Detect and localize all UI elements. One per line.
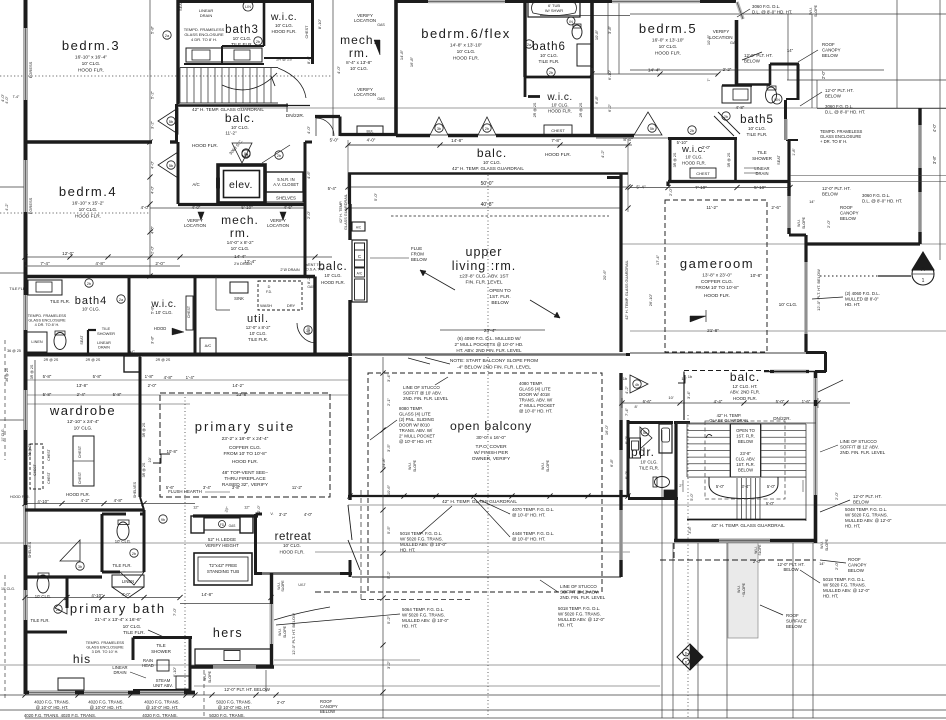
svg-text:5'-2": 5'-2" xyxy=(150,90,155,99)
svg-text:2'-0": 2'-0" xyxy=(148,383,157,388)
svg-text:HD. HT.: HD. HT. xyxy=(400,548,415,553)
svg-text:1'-8": 1'-8" xyxy=(792,148,796,156)
svg-text:+ DR. TO 8' H.: + DR. TO 8' H. xyxy=(820,139,847,144)
svg-text:4020 F.G. TRANS. 4020 F.G. TR: 4020 F.G. TRANS. 4020 F.G. TRANS. xyxy=(24,713,96,718)
svg-text:HOOD FLR.: HOOD FLR. xyxy=(321,280,345,285)
svg-text:8'-10": 8'-10" xyxy=(317,18,322,29)
svg-text:LINEN: LINEN xyxy=(122,579,134,584)
svg-text:SHOWER: SHOWER xyxy=(97,331,115,336)
svg-text:A/C: A/C xyxy=(357,272,363,276)
svg-text:HOOD FLR.: HOOD FLR. xyxy=(453,56,479,62)
svg-text:3'-4": 3'-4" xyxy=(386,373,391,382)
svg-text:4'-2": 4'-2" xyxy=(5,203,9,211)
svg-text:2R @ 2S: 2R @ 2S xyxy=(276,58,292,62)
svg-text:5'-4": 5'-4" xyxy=(636,185,646,190)
right outer wall upper xyxy=(806,108,920,244)
svg-text:THRU FIREPLACE: THRU FIREPLACE xyxy=(224,476,265,482)
svg-text:SOFFIT @ 12' ABV.: SOFFIT @ 12' ABV. xyxy=(560,590,599,595)
wall bath4 / wic4 xyxy=(128,276,131,354)
svg-text:CHEST: CHEST xyxy=(47,449,51,461)
svg-text:14'-2": 14'-2" xyxy=(232,383,244,388)
svg-text:2R @ 2S: 2R @ 2S xyxy=(533,102,537,117)
leader lines xyxy=(276,9,850,625)
bedrm.5 east wall xyxy=(737,2,744,86)
svg-text:MULLED ABV. @ 10'-0": MULLED ABV. @ 10'-0" xyxy=(400,542,447,547)
svg-text:A/C: A/C xyxy=(356,226,362,230)
svg-text:2R @ 2S: 2R @ 2S xyxy=(86,358,101,362)
svg-text:ROOF: ROOF xyxy=(848,557,861,562)
svg-text:12'-0" x 8'-2": 12'-0" x 8'-2" xyxy=(246,325,271,330)
bath3 vanity sinks xyxy=(186,48,262,62)
svg-text:11'-2": 11'-2" xyxy=(292,485,303,490)
svg-text:10'-6": 10'-6" xyxy=(386,484,391,495)
svg-text:10' CLG.: 10' CLG. xyxy=(231,246,250,252)
svg-text:bath6: bath6 xyxy=(532,41,566,53)
svg-text:NOTE: START BALCONY SLOPE FROM: NOTE: START BALCONY SLOPE FROM xyxy=(450,358,538,364)
svg-text:(6) 4090 F.G. D.L. MULLED W/: (6) 4090 F.G. D.L. MULLED W/ xyxy=(457,336,521,341)
svg-text:DOOR W/ 4018: DOOR W/ 4018 xyxy=(519,392,550,397)
svg-text:10' CLG.: 10' CLG. xyxy=(748,126,766,131)
svg-text:TILE FLR.: TILE FLR. xyxy=(30,618,49,623)
svg-text:TILE FLR.: TILE FLR. xyxy=(123,630,145,636)
svg-text:14'-4": 14'-4" xyxy=(648,68,661,74)
svg-text:@ 10'-0" HD. HT.: @ 10'-0" HD. HT. xyxy=(399,439,432,444)
svg-text:4'-10": 4'-10" xyxy=(91,593,103,598)
svg-text:10' CLG.: 10' CLG. xyxy=(82,61,101,67)
roof surface below xyxy=(728,543,807,638)
left margin small dims xyxy=(1,95,30,591)
svg-text:23'-4": 23'-4" xyxy=(484,328,497,334)
svg-text:COFFER CLG.: COFFER CLG. xyxy=(229,445,261,451)
svg-text:12'-0" PLT. HT.: 12'-0" PLT. HT. xyxy=(853,494,882,499)
svg-text:HOOD FLR.: HOOD FLR. xyxy=(75,214,101,220)
svg-text:D: D xyxy=(268,285,271,289)
svg-text:5b: 5b xyxy=(169,163,174,168)
bottom exterior wall his area xyxy=(25,691,195,695)
svg-text:5'-2": 5'-2" xyxy=(386,570,391,579)
svg-text:48" TOP-VENT SEE–: 48" TOP-VENT SEE– xyxy=(222,470,268,476)
svg-text:TILE FLR.: TILE FLR. xyxy=(112,563,131,568)
open balcony east wall xyxy=(619,373,622,577)
svg-text:W/ 5020 F.G. TRANS.: W/ 5020 F.G. TRANS. xyxy=(823,583,866,588)
svg-text:2b: 2b xyxy=(690,129,694,133)
svg-text:8'-4" x 13'-8": 8'-4" x 13'-8" xyxy=(346,60,372,65)
svg-text:5'-0": 5'-0" xyxy=(776,399,785,404)
bath5 outer wall jogs xyxy=(736,64,799,140)
svg-text:OPEN TO: OPEN TO xyxy=(489,288,511,294)
svg-text:2R @ 2S: 2R @ 2S xyxy=(44,358,59,362)
bath6 tub xyxy=(528,0,580,17)
wardrobe dims xyxy=(37,374,248,504)
svg-text:@ 10'-0" HD. HT.: @ 10'-0" HD. HT. xyxy=(512,513,545,518)
svg-text:V.: V. xyxy=(270,512,273,516)
svg-text:BELOW: BELOW xyxy=(738,468,753,473)
svg-text:4'-0": 4'-0" xyxy=(306,125,311,134)
stair dn arrow upper xyxy=(286,103,288,112)
svg-text:14'-8" x 13'-10": 14'-8" x 13'-10" xyxy=(450,43,482,49)
retreat east window annotations xyxy=(277,580,306,592)
roof canopy dashed lower right xyxy=(660,543,816,560)
svg-text:HOOD FLR.: HOOD FLR. xyxy=(733,396,757,401)
svg-text:GAS: GAS xyxy=(730,41,738,45)
svg-text:A.V. CLOSET: A.V. CLOSET xyxy=(273,182,299,187)
room label primary bath xyxy=(70,601,166,638)
svg-text:LIN: LIN xyxy=(774,98,780,102)
svg-text:2"Ø DRAIN: 2"Ø DRAIN xyxy=(280,268,300,272)
svg-text:SINK: SINK xyxy=(234,296,244,301)
svg-text:LIN: LIN xyxy=(245,5,251,9)
svg-text:W/ 5020 F.G. TRANS.: W/ 5020 F.G. TRANS. xyxy=(400,537,443,542)
gameroom east annotations xyxy=(816,269,880,311)
svg-text:4'-0": 4'-0" xyxy=(150,160,155,169)
svg-text:rm.: rm. xyxy=(230,226,250,240)
svg-text:DRAIN: DRAIN xyxy=(755,171,768,176)
svg-text:10' CLG.: 10' CLG. xyxy=(82,307,100,312)
svg-text:10' CLG.: 10' CLG. xyxy=(779,302,798,308)
svg-text:2'-4": 2'-4" xyxy=(77,392,86,397)
svg-text:GAS: GAS xyxy=(377,23,385,27)
svg-text:1ST. FLR.: 1ST. FLR. xyxy=(489,294,510,300)
svg-text:2'-0": 2'-0" xyxy=(306,210,311,219)
svg-text:W.U.: W.U. xyxy=(737,585,741,593)
shower annotations xyxy=(86,641,146,678)
svg-text:3b: 3b xyxy=(78,565,82,569)
freestanding tub xyxy=(194,553,252,585)
svg-text:12'-0" PLT. HT. BELOW: 12'-0" PLT. HT. BELOW xyxy=(816,269,821,311)
svg-text:TILE FLR.: TILE FLR. xyxy=(539,59,560,64)
svg-text:42" H. TEMP. GLASS GUARDRAIL: 42" H. TEMP. GLASS GUARDRAIL xyxy=(452,166,524,171)
stair block right annotations xyxy=(753,491,892,598)
svg-text:@ 10'-0" HD. HT.: @ 10'-0" HD. HT. xyxy=(36,705,69,710)
svg-text:5018 TEMP. F.G. D.L.: 5018 TEMP. F.G. D.L. xyxy=(558,606,600,611)
svg-text:10' CLG.: 10' CLG. xyxy=(1,587,15,591)
util room xyxy=(200,263,325,353)
svg-text:VERIFY HEIGHT: VERIFY HEIGHT xyxy=(205,543,239,548)
svg-text:13'-8": 13'-8" xyxy=(76,383,88,388)
svg-text:10'-8": 10'-8" xyxy=(594,29,599,40)
line of stucco note left xyxy=(403,377,449,401)
svg-text:10' CLG.: 10' CLG. xyxy=(115,539,131,544)
svg-text:HD. HT,: HD. HT, xyxy=(845,524,860,529)
svg-text:6'-8": 6'-8" xyxy=(594,95,599,104)
balc left room label xyxy=(318,261,347,285)
svg-text:W/ 5020 F.G. TRANS.: W/ 5020 F.G. TRANS. xyxy=(845,513,888,518)
svg-text:2b: 2b xyxy=(485,127,489,131)
bedrm.5 south wall and doors xyxy=(592,112,740,136)
svg-text:RAISED 32", VERIFY: RAISED 32", VERIFY xyxy=(222,482,269,488)
svg-text:@ 10'-0" HD. HT.: @ 10'-0" HD. HT. xyxy=(90,705,123,710)
svg-text:upper: upper xyxy=(466,245,503,259)
svg-text:CHEST: CHEST xyxy=(696,171,710,176)
svg-text:BELOW: BELOW xyxy=(822,53,839,58)
svg-text:HD. HT,: HD. HT, xyxy=(823,594,838,599)
svg-text:4'-0": 4'-0" xyxy=(192,205,201,210)
svg-text:MULLED ABV. @ 12'-0": MULLED ABV. @ 12'-0" xyxy=(823,588,870,593)
svg-text:14": 14" xyxy=(809,199,815,204)
toilet room upper fixtures xyxy=(112,520,144,585)
svg-text:SHOWER: SHOWER xyxy=(151,649,171,654)
svg-text:3'-8": 3'-8" xyxy=(607,25,612,34)
svg-text:36 @ 25: 36 @ 25 xyxy=(28,443,32,456)
svg-text:4'-8": 4'-8" xyxy=(164,375,173,380)
bath5 tile shower xyxy=(744,140,796,183)
wardrobe east wall xyxy=(133,357,146,510)
svg-text:2b: 2b xyxy=(549,71,553,75)
wall mech rm top (north, stepped) xyxy=(315,117,396,137)
svg-text:2'-0": 2'-0" xyxy=(834,491,839,500)
svg-text:DN/22R.: DN/22R. xyxy=(773,416,791,421)
svg-text:MULLED ABV. @ 12'-0": MULLED ABV. @ 12'-0" xyxy=(558,617,605,622)
svg-text:balc.: balc. xyxy=(225,111,255,125)
svg-text:5'-10": 5'-10" xyxy=(241,205,253,210)
svg-text:1b: 1b xyxy=(623,376,628,381)
svg-text:2ND. FIN. FLR. LEVEL: 2ND. FIN. FLR. LEVEL xyxy=(560,595,606,600)
bath5 block dim row xyxy=(623,137,790,190)
svg-text:CANOPY: CANOPY xyxy=(848,563,867,568)
gameroom dashed boundary xyxy=(665,187,781,352)
svg-text:3'-2": 3'-2" xyxy=(279,512,288,517)
svg-text:TEMPD. FRAMELESS: TEMPD. FRAMELESS xyxy=(86,641,125,645)
door markers primary suite entry xyxy=(60,515,167,570)
svg-text:10' CLG.: 10' CLG. xyxy=(79,207,98,213)
wic bath5 room xyxy=(668,138,737,182)
svg-text:5'-0": 5'-0" xyxy=(330,138,339,143)
svg-text:W.U.: W.U. xyxy=(278,628,282,636)
svg-text:7'-4": 7'-4" xyxy=(40,261,50,266)
svg-text:CHEST: CHEST xyxy=(305,25,309,39)
svg-text:12'-0" PLT. HT. BELOW: 12'-0" PLT. HT. BELOW xyxy=(291,613,296,655)
svg-text:10': 10' xyxy=(668,395,673,400)
svg-text:50'-0": 50'-0" xyxy=(481,181,494,187)
svg-text:SEAT: SEAT xyxy=(80,335,84,345)
svg-text:4080 TEMP.: 4080 TEMP. xyxy=(519,381,543,386)
svg-text:W/ 5020 F.G. TRANS.: W/ 5020 F.G. TRANS. xyxy=(558,612,601,617)
svg-text:SLOPE: SLOPE xyxy=(208,670,212,683)
svg-text:elev.: elev. xyxy=(229,179,253,191)
svg-text:UNIT ABV.: UNIT ABV. xyxy=(153,683,173,688)
svg-text:52" H. LEDGE: 52" H. LEDGE xyxy=(208,537,236,542)
stair west wall xyxy=(176,0,179,104)
svg-text:TILE FLR.: TILE FLR. xyxy=(248,337,268,342)
svg-text:MULLED ABV. @ 12'-0": MULLED ABV. @ 12'-0" xyxy=(845,518,892,523)
svg-text:W.U.: W.U. xyxy=(797,219,801,227)
room label mech rm top xyxy=(340,13,385,101)
room label hers xyxy=(213,626,243,640)
svg-text:10' CLG.: 10' CLG. xyxy=(483,160,501,165)
bath5 toilet and lin xyxy=(766,86,783,104)
svg-text:HOOD FLR.: HOOD FLR. xyxy=(548,109,572,114)
svg-text:HOOD FLR.: HOOD FLR. xyxy=(655,51,681,57)
svg-text:13'-8" x 23'-0": 13'-8" x 23'-0" xyxy=(702,273,732,279)
svg-text:10' CLG.: 10' CLG. xyxy=(35,594,51,599)
svg-text:LOCATION: LOCATION xyxy=(709,35,732,40)
left exterior wall xyxy=(24,0,28,694)
wall bedrm.6 / bath6 xyxy=(523,0,526,77)
room label bedrm.5 xyxy=(592,21,718,74)
line of stucco bottom center xyxy=(558,584,606,628)
room label w.i.c. top xyxy=(270,11,309,62)
svg-text:2'-0": 2'-0" xyxy=(155,261,165,266)
svg-text:5'-0": 5'-0" xyxy=(766,501,775,506)
svg-text:gameroom: gameroom xyxy=(680,256,754,271)
svg-text:W.U.: W.U. xyxy=(820,541,824,549)
svg-text:TRANS. ABV. W/: TRANS. ABV. W/ xyxy=(399,428,433,433)
svg-text:rm.: rm. xyxy=(349,46,369,60)
svg-text:BELOW: BELOW xyxy=(822,192,839,197)
svg-text:3'-2": 3'-2" xyxy=(386,660,391,669)
svg-text:2'-0": 2'-0" xyxy=(702,145,711,150)
bath6 toilet xyxy=(567,17,582,39)
svg-text:17'-4": 17'-4" xyxy=(655,254,660,265)
svg-text:w.i.c.: w.i.c. xyxy=(546,92,572,103)
svg-text:HOOD FLR.: HOOD FLR. xyxy=(66,492,90,497)
svg-text:LINEAR: LINEAR xyxy=(97,341,111,345)
svg-text:LINE OF STUCCO: LINE OF STUCCO xyxy=(403,385,440,390)
svg-text:10' CLG.: 10' CLG. xyxy=(551,103,568,108)
svg-text:2b: 2b xyxy=(256,40,260,44)
svg-text:42" H. TEMP. GLASS GUARDRAIL: 42" H. TEMP. GLASS GUARDRAIL xyxy=(711,523,785,528)
svg-text:bedrm.4: bedrm.4 xyxy=(59,184,117,199)
svg-text:ROOF: ROOF xyxy=(822,42,835,47)
svg-text:11'-2": 11'-2" xyxy=(706,205,718,210)
lower balc walls xyxy=(684,371,816,544)
svg-text:HD. HT,: HD. HT, xyxy=(558,623,573,628)
sliding door note xyxy=(370,406,435,444)
svg-text:↓: ↓ xyxy=(742,593,744,598)
svg-text:10' CLG.: 10' CLG. xyxy=(324,273,341,278)
svg-text:14": 14" xyxy=(787,48,794,53)
svg-text:GAS: GAS xyxy=(229,524,236,528)
misc right column rotated dims xyxy=(317,18,732,112)
svg-text:12'-10" x 24'-4": 12'-10" x 24'-4" xyxy=(67,419,99,425)
svg-text:2'-0": 2'-0" xyxy=(826,219,831,228)
wardrobe chests xyxy=(28,364,94,558)
svg-text:2'-0": 2'-0" xyxy=(834,561,839,570)
toilet room upper walls xyxy=(25,510,144,572)
wall bath6 block east xyxy=(590,0,594,137)
room label bath3 xyxy=(225,24,259,48)
svg-text:5'-0": 5'-0" xyxy=(690,493,694,501)
svg-text:LOCATION: LOCATION xyxy=(354,92,376,97)
pdr fixtures xyxy=(630,438,670,488)
svg-text:12": 12" xyxy=(193,505,199,510)
svg-text:BELOW: BELOW xyxy=(853,500,870,505)
svg-text:10' CLG.: 10' CLG. xyxy=(249,331,266,336)
bedrm.5 north wall xyxy=(592,0,736,3)
svg-text:5018 TEMP. F.G. D.L.: 5018 TEMP. F.G. D.L. xyxy=(400,531,442,536)
svg-text:SHELVES: SHELVES xyxy=(276,196,296,201)
svg-text:W.U.: W.U. xyxy=(541,462,545,470)
svg-text:12' CLG. HT.: 12' CLG. HT. xyxy=(733,384,758,389)
svg-text:GLASS ENCLOSURE: GLASS ENCLOSURE xyxy=(86,646,124,650)
svg-text:CHEST: CHEST xyxy=(78,445,82,458)
svg-text:2b: 2b xyxy=(277,154,281,158)
wic block south wall extension lines xyxy=(790,176,946,182)
room label wic4 xyxy=(44,296,193,362)
svg-text:A/C: A/C xyxy=(205,343,212,348)
svg-text:10'-8": 10'-8" xyxy=(750,273,762,278)
svg-text:6'-10": 6'-10" xyxy=(172,666,177,677)
svg-text:5'-8": 5'-8" xyxy=(43,392,52,397)
room label w.i.c. bath6 xyxy=(533,92,583,135)
left margin rotated dims xyxy=(150,25,312,344)
svg-text:CHEST: CHEST xyxy=(187,305,191,318)
svg-text:±23'-8" CLG. ABV. 1ST: ±23'-8" CLG. ABV. 1ST xyxy=(459,274,508,280)
svg-text:36 @ 25: 36 @ 25 xyxy=(7,349,21,353)
wardrobe inner shelf line xyxy=(28,360,35,510)
svg-text:8'-2": 8'-2" xyxy=(306,275,311,284)
svg-text:6'-2": 6'-2" xyxy=(607,103,612,112)
svg-text:3'-8": 3'-8" xyxy=(688,526,692,534)
svg-text:W.U.: W.U. xyxy=(203,673,207,681)
room label bedrm.3 xyxy=(62,38,120,74)
verify location top mech xyxy=(709,29,738,45)
svg-text:LOCATION: LOCATION xyxy=(354,18,376,23)
svg-text:BELOW: BELOW xyxy=(411,257,428,262)
svg-text:3R @ 2S: 3R @ 2S xyxy=(727,152,731,167)
svg-text:16'-10" x 16'-4": 16'-10" x 16'-4" xyxy=(75,55,107,61)
svg-text:bedrm.6/flex: bedrm.6/flex xyxy=(421,26,511,41)
svg-text:2'-0": 2'-0" xyxy=(150,245,155,254)
svg-text:TILE FLR.: TILE FLR. xyxy=(9,287,26,291)
a/c closet wardrobe xyxy=(124,350,140,372)
svg-text:14'-8": 14'-8" xyxy=(201,592,213,597)
svg-text:2b: 2b xyxy=(87,282,91,286)
svg-text:4020 F.G. TRANS.: 4020 F.G. TRANS. xyxy=(144,700,180,705)
svg-text:4'-10": 4'-10" xyxy=(37,499,49,504)
svg-text:@ 10'-0" HD. HT.: @ 10'-0" HD. HT. xyxy=(218,705,251,710)
svg-text:4'-2": 4'-2" xyxy=(81,498,90,503)
svg-text:4 DR. TO 8' H.: 4 DR. TO 8' H. xyxy=(35,323,60,327)
svg-text:3'-8": 3'-8" xyxy=(232,485,241,490)
svg-text:2ND. FIN. FLR. LEVEL: 2ND. FIN. FLR. LEVEL xyxy=(403,396,449,401)
svg-text:TEMPD. FRAMELESS: TEMPD. FRAMELESS xyxy=(28,314,67,318)
door to elevator lobby xyxy=(232,143,252,163)
svg-text:GLASS (4) LITE: GLASS (4) LITE xyxy=(399,412,431,417)
svg-text:20'-6": 20'-6" xyxy=(602,269,607,280)
wall util top step xyxy=(195,277,315,311)
svg-text:HOOD FLR.: HOOD FLR. xyxy=(78,68,104,74)
svg-text:LOCATION: LOCATION xyxy=(184,223,206,228)
svg-text:OPEN TO: OPEN TO xyxy=(736,428,755,433)
svg-text:FROM 10' TO 10'-8": FROM 10' TO 10'-8" xyxy=(223,451,266,457)
svg-text:2" MULL POCKET: 2" MULL POCKET xyxy=(399,434,435,439)
svg-text:5'-0": 5'-0" xyxy=(716,484,725,489)
room label bath5 xyxy=(740,114,774,137)
svg-text:bath4: bath4 xyxy=(75,295,108,307)
svg-text:3'-2": 3'-2" xyxy=(150,120,155,129)
svg-text:23'-8": 23'-8" xyxy=(740,451,751,456)
av closet xyxy=(266,172,303,202)
wall mech rm east xyxy=(305,142,312,276)
gameroom stepped west wall xyxy=(789,183,826,372)
wall bedrm.6 south xyxy=(396,134,592,137)
svg-text:24'-8": 24'-8" xyxy=(381,457,386,468)
svg-text:(2) 4060 F.G. D.L.: (2) 4060 F.G. D.L. xyxy=(845,291,880,296)
svg-text:1ST. FLR.: 1ST. FLR. xyxy=(736,462,755,467)
svg-text:4'-2": 4'-2" xyxy=(600,149,605,158)
svg-text:5'-6": 5'-6" xyxy=(166,485,175,490)
svg-text:BELOW: BELOW xyxy=(320,709,335,714)
svg-text:3 DR. TO 10' H.: 3 DR. TO 10' H. xyxy=(92,650,119,654)
svg-text:1'-8": 1'-8" xyxy=(145,374,154,379)
svg-text:GAS: GAS xyxy=(307,285,315,289)
svg-text:10' CLG.: 10' CLG. xyxy=(350,66,368,71)
svg-text:FLUE: FLUE xyxy=(411,246,422,251)
svg-text:HOOD FLR.: HOOD FLR. xyxy=(10,495,30,499)
room label pdr xyxy=(631,445,659,471)
svg-text:TILE FLR.: TILE FLR. xyxy=(231,42,253,48)
